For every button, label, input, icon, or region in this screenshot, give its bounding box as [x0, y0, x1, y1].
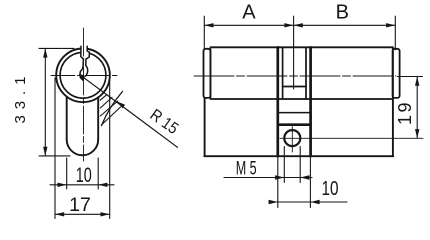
dimension M5 line	[224, 177, 312, 179]
dimension 10 (left) extension right	[97, 158, 99, 189]
dimension B arrow right	[386, 23, 395, 27]
body right edge	[97, 97, 99, 139]
dimension 33.1 extension bottom	[39, 155, 70, 157]
dimension B arrow left	[294, 23, 303, 27]
screw hole horizontal crosshair / 19 extension	[280, 137, 423, 139]
dimension 10 (left) arrow left-pointing	[98, 183, 107, 187]
barrel bottom line	[210, 98, 392, 100]
svg-text:M 5: M 5	[236, 159, 257, 180]
dimension B line	[294, 24, 396, 26]
centerline horizontal (left view)	[51, 75, 117, 77]
dimension M5 extension left	[283, 147, 285, 183]
dimension M5 arrow left-pointing	[300, 175, 309, 179]
svg-text:17: 17	[69, 194, 91, 216]
svg-text:A: A	[242, 2, 256, 24]
cam housing thick line	[278, 123, 311, 126]
dimension 10 (bottom) line	[269, 201, 347, 203]
outer circle (cylinder face)	[56, 49, 110, 103]
body left edge	[66, 97, 68, 140]
body left face	[204, 98, 206, 156]
svg-text:10: 10	[322, 177, 339, 200]
dimension 33.1 extension top	[39, 47, 74, 49]
dimension 17 arrow right	[101, 212, 110, 216]
dimension 10 (left) extension left	[66, 158, 68, 189]
dimension 33.1 line	[44, 48, 46, 155]
dimension 19 arrow up	[415, 77, 419, 86]
dimension 17 extension right	[109, 78, 111, 219]
dimension 33.1 arrow down	[43, 147, 47, 156]
keyway slot white cutout	[80, 45, 90, 81]
dimension 10 (left) line	[50, 184, 114, 186]
cam housing line	[278, 112, 311, 114]
dimension 19 arrow down	[415, 129, 419, 138]
cam section left outer face	[276, 47, 279, 156]
cam slot bottom	[283, 86, 306, 88]
dimension 33.1 arrow up	[43, 48, 47, 57]
dimension 17 line	[55, 213, 110, 215]
cam slot left inner line	[282, 47, 284, 99]
dimension A/B extension right	[394, 16, 396, 50]
right end cap	[393, 49, 400, 98]
dimension A line	[204, 24, 293, 26]
dimension A arrow left	[204, 23, 213, 27]
screw hole vertical crosshair	[291, 127, 293, 153]
keyway left outline	[80, 46, 84, 75]
dimension 10 (bottom) arrow left-pointing	[310, 200, 319, 204]
centerline horizontal (side view)	[194, 75, 396, 77]
cam section right outer face	[309, 47, 312, 156]
hatch 4	[102, 107, 121, 125]
body bottom arc	[67, 140, 99, 156]
body bottom edge	[204, 155, 393, 157]
dimension 10 (bottom) arrow right-pointing	[269, 200, 278, 204]
cam slot right inner line	[305, 47, 307, 99]
keyway foot (filled)	[80, 75, 85, 81]
barrel top edge	[210, 46, 392, 48]
dimension 19 line	[416, 77, 418, 139]
hatch 1	[100, 94, 107, 100]
svg-text:B: B	[336, 2, 349, 24]
R15 arc	[102, 92, 123, 126]
keyway right outline	[86, 46, 90, 76]
svg-text:19: 19	[395, 100, 415, 125]
dimension A/B extension left	[203, 16, 205, 49]
left end cap	[204, 49, 211, 98]
hatch 3	[100, 101, 118, 116]
dimension M5 extension right	[299, 147, 301, 183]
M5 screw hole	[284, 130, 300, 146]
dimension 17 extension left	[54, 78, 56, 219]
dimension 10 (bottom) extension right	[309, 158, 311, 208]
body+barrel right face	[392, 47, 394, 156]
R15 leader line	[85, 78, 178, 147]
dimension 10 (bottom) extension left	[277, 158, 279, 208]
dimension M5 arrow right-pointing	[275, 175, 284, 179]
dimension A/B extension centre	[293, 16, 295, 89]
dimension 10 (left) arrow right-pointing	[58, 183, 67, 187]
dimension 17 arrow left	[55, 212, 64, 216]
hatch 2	[100, 97, 112, 108]
svg-text:10: 10	[76, 163, 92, 187]
centerline vertical (left view)	[83, 28, 85, 161]
inner circle (plug)	[60, 52, 106, 98]
dimension A arrow right	[284, 23, 293, 27]
R15 leader arrowhead	[117, 101, 126, 108]
dimension 19 extension top	[398, 76, 423, 78]
left cap inner edge	[209, 49, 211, 98]
